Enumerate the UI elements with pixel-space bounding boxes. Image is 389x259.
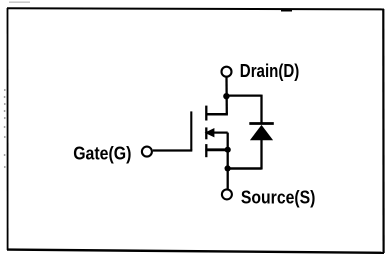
body diode branch upper wire: [260, 95, 262, 123]
svg-text:Source(S): Source(S): [241, 188, 316, 208]
wire drain node to diode cathode branch: [227, 94, 262, 96]
wire MOSFET source contact: [205, 148, 227, 151]
MOSFET Q1 channel drain segment: [205, 106, 207, 121]
junction drain node: [223, 93, 229, 99]
MOSFET Q1 channel source segment: [205, 144, 207, 157]
body diode triangle (anode): [250, 125, 273, 140]
junction source contact node: [225, 147, 231, 153]
wire source node to diode anode branch: [228, 167, 262, 169]
terminal Source circle: [222, 189, 232, 199]
wire drain vertical: [225, 77, 228, 114]
wire source-side vertical: [227, 133, 229, 189]
wire MOSFET drain contact: [206, 113, 228, 116]
svg-text:Gate(G): Gate(G): [73, 143, 131, 163]
body diode cathode bar: [249, 122, 273, 125]
MOSFET Q1 body arrow: [205, 128, 215, 137]
junction source-diode node: [225, 165, 231, 171]
terminal Gate circle: [142, 147, 152, 157]
body diode branch lower wire: [260, 139, 262, 170]
MOSFET Q1 gate electrode: [190, 111, 192, 150]
wire body contact to source node: [213, 132, 228, 134]
MOSFET Q1 channel body segment: [205, 127, 207, 139]
terminal Drain circle: [222, 67, 232, 77]
wire gate lead: [153, 149, 193, 151]
border frame (decorative): [7, 8, 384, 9]
svg-text:Drain(D): Drain(D): [240, 61, 300, 81]
